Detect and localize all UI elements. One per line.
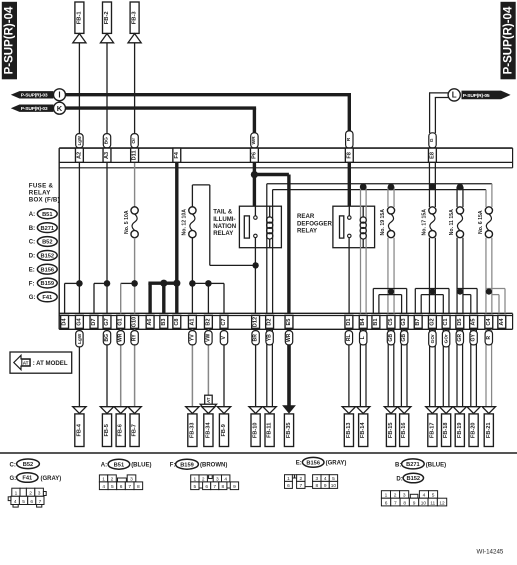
svg-text:4: 4 bbox=[102, 484, 105, 490]
svg-text:YB: YB bbox=[267, 334, 273, 341]
svg-text:8: 8 bbox=[403, 500, 406, 506]
wire color label WR for FB-6 bbox=[117, 331, 124, 345]
wire color label LgW on FB-1 wire bbox=[76, 134, 83, 148]
thick feed wire from flag K to F/B pin P6 bbox=[65, 106, 256, 109]
wire color label YB for FB-11 bbox=[266, 331, 273, 345]
connector FB-7 bbox=[130, 414, 139, 447]
hollow drop from bus to fuse No. 17 bbox=[428, 187, 430, 207]
connector FB-10 bbox=[251, 414, 260, 447]
wire color label GB for FB-16 bbox=[401, 331, 408, 345]
svg-text:FB-15: FB-15 bbox=[388, 423, 394, 439]
F/B bottom pin G10 bbox=[131, 315, 139, 328]
thick feed wire from flag I to F/B pin F8 bbox=[65, 93, 351, 96]
connector FB-2 bbox=[103, 2, 112, 33]
jumper junction to pin D7 bbox=[94, 282, 107, 284]
F/B bottom pin D2 bbox=[266, 315, 274, 328]
wire F/B to connector FB-20 (GY) bbox=[470, 329, 472, 407]
svg-text:(GRAY): (GRAY) bbox=[326, 461, 347, 467]
wire F/B to connector FB-17 (GOr) bbox=[429, 329, 431, 407]
svg-text:B159: B159 bbox=[40, 281, 54, 287]
arrow into connector FB-14 bbox=[357, 407, 370, 414]
svg-text:BOX (F/B): BOX (F/B) bbox=[29, 197, 60, 204]
svg-text:B4: B4 bbox=[360, 318, 366, 326]
svg-text:BG: BG bbox=[104, 137, 110, 145]
wire junction down to pin G10 bbox=[134, 283, 136, 313]
svg-text:1: 1 bbox=[194, 476, 197, 482]
connector FB-14 bbox=[359, 414, 368, 447]
hollow supply bus wire to fuses bbox=[267, 183, 492, 185]
svg-text:D7: D7 bbox=[91, 318, 97, 325]
svg-text:DEFOGGER: DEFOGGER bbox=[297, 220, 332, 227]
svg-text:P-SUP(R)-03: P-SUP(R)-03 bbox=[21, 106, 48, 112]
junction dot fuse No. 19 on supply bus bbox=[388, 184, 395, 191]
svg-text:B51: B51 bbox=[114, 462, 124, 468]
junction dot fuse No. 19 output split bbox=[388, 289, 394, 295]
wire F/B to connector FB-35 (WR) bbox=[287, 329, 291, 406]
svg-text:9: 9 bbox=[233, 484, 236, 490]
svg-text:C:: C: bbox=[29, 240, 35, 246]
wire color label GOr for FB-17 bbox=[429, 331, 436, 347]
svg-text:B159: B159 bbox=[180, 462, 194, 468]
svg-text:P-SUP(R)-03: P-SUP(R)-03 bbox=[21, 93, 48, 99]
svg-text:FB-21: FB-21 bbox=[486, 423, 492, 439]
svg-text:TAIL &: TAIL & bbox=[213, 209, 233, 216]
svg-text:RELAY: RELAY bbox=[297, 228, 317, 235]
fuse and relay box outline bbox=[59, 147, 512, 149]
svg-text:7: 7 bbox=[394, 500, 397, 506]
svg-text:YV: YV bbox=[189, 334, 195, 341]
svg-text:C:: C: bbox=[10, 462, 16, 468]
F/B bottom pin C7 bbox=[220, 315, 228, 328]
svg-text:B7: B7 bbox=[415, 318, 421, 325]
wire pin D11 down to fuse No. 5 bbox=[134, 162, 136, 206]
legend note: AT MODEL bbox=[10, 352, 72, 373]
svg-text:LgW: LgW bbox=[77, 333, 82, 344]
fuse No. 5 10A bbox=[131, 207, 138, 214]
svg-text:GY: GY bbox=[471, 333, 477, 341]
arrow into connector FB-10 bbox=[249, 407, 262, 414]
svg-text:D5: D5 bbox=[457, 318, 463, 325]
wire F/B to connector FB-18 (GOr) bbox=[442, 329, 444, 407]
wire F/B to connector FB-7 (RY) bbox=[134, 329, 136, 407]
junction dot fuse No. 6 output split bbox=[486, 289, 492, 295]
svg-text:G3: G3 bbox=[401, 318, 407, 325]
wire color label WR on feed K wire bbox=[251, 133, 258, 148]
connector FB-5 bbox=[102, 414, 111, 447]
connector FB-9 bbox=[219, 414, 228, 447]
F/B bottom pin D4 bbox=[61, 315, 69, 328]
wire F/B to connector FB-15 (GB) bbox=[387, 329, 389, 407]
junction dot fuse No. 17 output split bbox=[429, 289, 435, 295]
tail relay contact bar bbox=[244, 216, 249, 238]
wire color label WR for FB-35 bbox=[285, 331, 292, 345]
hollow drop from bus to fuse No. 19 bbox=[387, 187, 389, 207]
arrow into connector FB-16 bbox=[398, 407, 411, 414]
svg-text:BG: BG bbox=[104, 334, 110, 342]
wire color label R for FB-21 bbox=[485, 331, 492, 345]
junction dot on C8 column bbox=[173, 280, 180, 287]
hollow branch to pin A5 bbox=[457, 288, 477, 290]
svg-text:2: 2 bbox=[202, 476, 205, 482]
thick wire pin F8 down to defogger relay contact bbox=[348, 148, 351, 206]
wire color label RY for FB-7 bbox=[131, 331, 138, 345]
F/B bottom pin A4 bbox=[498, 315, 506, 328]
connector FB-34 bbox=[204, 414, 213, 447]
diagram page title block right: P-SUP(R)-04 bbox=[501, 2, 516, 80]
hollow wire fuse No. 17 output down to pin G2 bbox=[428, 238, 430, 314]
svg-text:5: 5 bbox=[111, 484, 114, 490]
arrow into connector FB-17 bbox=[426, 407, 439, 414]
svg-text:B271: B271 bbox=[40, 226, 54, 232]
svg-text:FB-14: FB-14 bbox=[360, 422, 366, 438]
wire junction down to pin B2 bbox=[207, 283, 209, 313]
svg-text:WR: WR bbox=[118, 333, 124, 342]
svg-text:4: 4 bbox=[224, 476, 227, 482]
svg-text:8: 8 bbox=[315, 483, 318, 489]
rear defogger relay box U2 bbox=[333, 206, 375, 248]
svg-text:K: K bbox=[57, 104, 63, 113]
wire color label R on feed I wire bbox=[346, 131, 353, 148]
svg-text:B:: B: bbox=[29, 226, 35, 232]
junction dot pin E8 / fuse No. 17 on supply bus bbox=[429, 183, 436, 190]
svg-text:FB-18: FB-18 bbox=[443, 423, 449, 439]
F/B bottom pin E5 bbox=[285, 315, 293, 328]
svg-text:5: 5 bbox=[22, 499, 25, 505]
diagram page title block left: P-SUP(R)-04 bbox=[2, 2, 17, 80]
junction dot on B2 column bbox=[205, 280, 212, 287]
svg-text:FB-16: FB-16 bbox=[401, 423, 407, 439]
junction dot defogger coil on supply bus bbox=[360, 183, 367, 190]
fuse No. 11 15A bbox=[456, 207, 463, 214]
thick branch wire to pin E5 bbox=[254, 173, 289, 176]
F/B bottom pin B4 bbox=[359, 315, 367, 328]
wire F/B to connector FB-5 (BG) bbox=[106, 329, 108, 407]
F/B bottom pin G4 bbox=[75, 315, 83, 328]
svg-text:FB-9: FB-9 bbox=[221, 424, 227, 436]
hollow wire fuse No. 11 output down to pin D5 bbox=[456, 238, 458, 314]
tail & illumination relay box U1 bbox=[239, 206, 281, 248]
connector FB-21 bbox=[484, 414, 493, 447]
svg-text:G7: G7 bbox=[104, 318, 110, 325]
svg-text:FB-7: FB-7 bbox=[132, 424, 138, 436]
svg-text:B52: B52 bbox=[42, 240, 52, 246]
wire loop feeding fuse No. 12 from tail relay output bbox=[191, 185, 193, 207]
wire F/B to connector FB-16 (GB) bbox=[400, 329, 402, 407]
svg-text:10: 10 bbox=[421, 500, 427, 506]
svg-text:8: 8 bbox=[137, 484, 140, 490]
wire from connector FB-2 to F/B pin A3 bbox=[106, 43, 108, 134]
svg-text:3: 3 bbox=[216, 476, 219, 482]
arrow into connector FB-15 bbox=[384, 407, 397, 414]
junction dot on G10 column bbox=[131, 280, 138, 287]
svg-text:2: 2 bbox=[394, 493, 397, 499]
defogger relay contact bar bbox=[340, 216, 344, 238]
F/B top pin F4 bbox=[173, 148, 181, 162]
svg-text:D1: D1 bbox=[346, 318, 352, 325]
svg-text:2: 2 bbox=[111, 476, 114, 482]
svg-text:B2: B2 bbox=[205, 318, 211, 325]
hollow wire fuse No. 6 output down to pin C4 bbox=[485, 238, 487, 314]
arrow into connector FB-13 bbox=[342, 407, 355, 414]
junction dot fuse No. 11 output split bbox=[457, 289, 463, 295]
connector FB-13 bbox=[344, 414, 353, 447]
wire from connector FB-1 to F/B pin A2 bbox=[78, 43, 80, 134]
junction dot on A1 column bbox=[189, 280, 196, 287]
tail relay coil bbox=[269, 206, 271, 217]
wire F/B to connector FB-19 (GR) bbox=[456, 329, 458, 407]
arrow into connector FB-7 bbox=[128, 407, 141, 414]
svg-text:R: R bbox=[346, 137, 352, 141]
svg-text:B52: B52 bbox=[23, 462, 33, 468]
svg-text:FB-11: FB-11 bbox=[267, 423, 273, 438]
svg-text:B152: B152 bbox=[40, 253, 54, 259]
connector FB-1 bbox=[75, 2, 84, 33]
F/B bottom pin C8 bbox=[173, 315, 181, 328]
svg-text:B156: B156 bbox=[306, 460, 320, 466]
F/B bottom pin G7 bbox=[103, 315, 111, 328]
wire color label BG for FB-5 bbox=[103, 331, 110, 345]
horizontal separator rule bbox=[0, 452, 517, 454]
svg-text:4: 4 bbox=[423, 493, 426, 499]
svg-text:FB-34: FB-34 bbox=[205, 422, 211, 438]
wire color label Or on FB-3 wire bbox=[131, 134, 138, 148]
svg-text:FB-33: FB-33 bbox=[189, 423, 195, 439]
junction dot on G7 column bbox=[104, 280, 111, 287]
svg-text:P6: P6 bbox=[251, 152, 257, 159]
arrow into connector FB-34 bbox=[202, 407, 215, 414]
wire F/B to connector FB-6 (WR) bbox=[120, 329, 122, 407]
jumper from B2 junction to pin C7 bbox=[208, 282, 224, 284]
F/B top pin D11 bbox=[131, 148, 139, 162]
wire F/B to connector FB-33 (YV) bbox=[191, 329, 193, 407]
F/B bottom pin C4 bbox=[485, 315, 493, 328]
F/B bottom pin C1 bbox=[442, 315, 450, 328]
svg-text:FB-13: FB-13 bbox=[346, 423, 352, 439]
svg-text:AT: AT bbox=[23, 360, 29, 365]
power feed flag K from P-SUP(R)-03 bbox=[11, 105, 54, 112]
hollow branch bar to pins B1 and G3 bbox=[373, 288, 406, 290]
svg-text:B:: B: bbox=[395, 462, 401, 468]
arrow into connector FB-18 bbox=[439, 407, 452, 414]
wire from connector FB-3 to F/B pin D11 bbox=[134, 43, 136, 134]
arrow into connector FB-5 bbox=[100, 407, 113, 414]
connector FB-19 bbox=[455, 414, 464, 447]
svg-text:9: 9 bbox=[324, 483, 327, 489]
svg-text:C5: C5 bbox=[388, 318, 394, 325]
F/B bottom pin D5 bbox=[456, 315, 464, 328]
F/B bottom pin B2 bbox=[204, 315, 212, 328]
svg-text:A3: A3 bbox=[104, 152, 110, 159]
svg-text:Or: Or bbox=[131, 138, 137, 144]
wire fuse No. 5 output down to G10 junction bbox=[134, 238, 136, 284]
svg-text:No. 6 15A: No. 6 15A bbox=[478, 210, 484, 234]
svg-text:RY: RY bbox=[132, 334, 138, 341]
F/B bottom pin B7 bbox=[414, 315, 422, 328]
jumper junction to pin D4 bbox=[65, 282, 80, 284]
wire color label BR for FB-10 bbox=[252, 331, 259, 345]
F/B bottom pin C5 bbox=[387, 315, 395, 328]
svg-text:7: 7 bbox=[299, 483, 302, 489]
svg-text:B1: B1 bbox=[373, 318, 379, 325]
connector FB-4 bbox=[75, 414, 84, 447]
svg-text:WR: WR bbox=[286, 333, 292, 342]
svg-text:G:: G: bbox=[29, 295, 36, 301]
svg-text:A:: A: bbox=[29, 212, 35, 218]
connector face view C/G bbox=[12, 488, 20, 496]
svg-text:FB-6: FB-6 bbox=[118, 424, 124, 436]
svg-text:10: 10 bbox=[331, 483, 337, 489]
connector face view A bbox=[99, 475, 107, 482]
arrow into connector FB-11 bbox=[263, 407, 276, 414]
svg-text:C8: C8 bbox=[174, 318, 180, 325]
thick branch bar to pins B3 and A6 bbox=[148, 282, 176, 285]
connector FB-17 bbox=[428, 414, 437, 447]
svg-text:A1: A1 bbox=[189, 318, 195, 325]
wire color label GB for FB-15 bbox=[387, 331, 394, 345]
hollow drop from bus to fuse No. 11 bbox=[456, 187, 458, 207]
svg-text:FB-1: FB-1 bbox=[76, 11, 82, 25]
svg-text:LgW: LgW bbox=[77, 135, 82, 145]
hollow branch bar to pins B7 and C1 bbox=[415, 288, 449, 290]
svg-text:FB-4: FB-4 bbox=[76, 423, 82, 436]
connector FB-15 bbox=[386, 414, 395, 447]
svg-text:5: 5 bbox=[432, 493, 435, 499]
svg-text:A2: A2 bbox=[76, 152, 82, 159]
svg-text:: AT MODEL: : AT MODEL bbox=[33, 360, 68, 367]
hollow branch to pin A4 bbox=[486, 288, 505, 290]
svg-text:GB: GB bbox=[401, 334, 407, 342]
svg-text:5: 5 bbox=[194, 484, 197, 490]
fuse No. 6 15A bbox=[485, 207, 492, 214]
fuse No. 17 15A bbox=[429, 207, 436, 214]
jumper from A1 junction to B2 junction bbox=[192, 282, 208, 284]
wire color label YV for FB-33 bbox=[189, 331, 196, 345]
svg-text:I: I bbox=[58, 91, 60, 100]
hollow wire drop through tail relay coil to pin D2 bbox=[266, 184, 268, 314]
F/B bottom pin A1 bbox=[188, 315, 196, 328]
hollow drop from bus right end to fuse No. 6 bbox=[491, 184, 493, 207]
wire F/B to connector FB-34 (VW) bbox=[207, 329, 209, 407]
defogger relay coil bbox=[362, 206, 364, 217]
svg-text:F41: F41 bbox=[22, 476, 32, 482]
wire color label BG on FB-2 wire bbox=[103, 134, 110, 148]
svg-text:7: 7 bbox=[213, 484, 216, 490]
svg-text:G: G bbox=[429, 138, 435, 142]
thick wire pin P6 down to junction dot bbox=[253, 162, 256, 206]
svg-text:No. 5 10A: No. 5 10A bbox=[124, 210, 130, 234]
svg-text:11: 11 bbox=[430, 500, 435, 506]
svg-text:E5: E5 bbox=[286, 319, 292, 326]
wire color label L for FB-14 bbox=[360, 331, 367, 345]
junction dot on tail relay output at D12 column bbox=[252, 262, 258, 268]
F/B bottom pin A6 bbox=[146, 315, 154, 328]
svg-text:R: R bbox=[486, 336, 492, 340]
svg-text:P-SUP(R)-04: P-SUP(R)-04 bbox=[4, 6, 16, 74]
wire fuse No. 12 output down to pin A1 bbox=[191, 238, 193, 314]
svg-text:3: 3 bbox=[130, 476, 133, 482]
connector FB-33 bbox=[188, 414, 197, 447]
connector FB-35 bbox=[284, 414, 293, 447]
wire color label GOr for FB-18 bbox=[442, 331, 449, 347]
arrow into connector FB-6 bbox=[114, 407, 127, 414]
power feed flag I from P-SUP(R)-03 bbox=[11, 91, 54, 98]
connector FB-18 bbox=[442, 414, 451, 447]
svg-text:9: 9 bbox=[413, 500, 416, 506]
svg-text:(BLUE): (BLUE) bbox=[131, 463, 151, 469]
svg-text:A:: A: bbox=[101, 463, 107, 469]
svg-text:B152: B152 bbox=[406, 476, 420, 482]
svg-text:FB-2: FB-2 bbox=[104, 11, 110, 24]
svg-text:FB-10: FB-10 bbox=[253, 423, 259, 439]
svg-text:G4: G4 bbox=[76, 317, 82, 325]
hollow wire pin E8 down to supply bus bbox=[428, 162, 430, 186]
connector FB-11 bbox=[265, 414, 274, 447]
svg-text:G1: G1 bbox=[118, 318, 124, 325]
wire F/B to connector FB-13 (RL) bbox=[348, 329, 350, 407]
connector face view E bbox=[285, 475, 293, 482]
svg-text:A4: A4 bbox=[499, 318, 505, 326]
svg-text:F4: F4 bbox=[174, 151, 180, 158]
svg-text:F8: F8 bbox=[346, 152, 352, 159]
svg-text:1: 1 bbox=[385, 493, 388, 499]
wire color label V for FB-9 bbox=[220, 331, 227, 345]
svg-text:P-SUP(R)-04: P-SUP(R)-04 bbox=[502, 6, 514, 74]
svg-text:(BROWN): (BROWN) bbox=[200, 463, 227, 469]
svg-text:12: 12 bbox=[439, 500, 445, 506]
hollow wire from flag L down to F/B pin E8 bbox=[429, 92, 448, 94]
svg-text:6: 6 bbox=[30, 499, 33, 505]
F/B top pin E8 bbox=[428, 148, 436, 162]
connector face view F bbox=[191, 475, 199, 482]
svg-text:GB: GB bbox=[388, 334, 394, 342]
arrow into connector FB-19 bbox=[453, 407, 466, 414]
svg-text:L: L bbox=[360, 336, 366, 339]
svg-text:ILLUMI-: ILLUMI- bbox=[213, 216, 235, 223]
F/B bottom pin G2 bbox=[428, 315, 436, 328]
svg-text:D12: D12 bbox=[253, 317, 259, 327]
svg-text:FB-20: FB-20 bbox=[471, 423, 477, 439]
F/B bottom pin D7 bbox=[90, 315, 98, 328]
wire color label GY for FB-20 bbox=[470, 331, 477, 345]
fuse No. 12 10A bbox=[189, 207, 196, 214]
svg-text:NATION: NATION bbox=[213, 223, 236, 230]
svg-text:C7: C7 bbox=[221, 318, 227, 325]
svg-text:G10: G10 bbox=[132, 317, 138, 328]
arrow into connector FB-9 bbox=[217, 407, 230, 414]
svg-text:D:: D: bbox=[29, 254, 35, 260]
junction dot on P6 feed bbox=[251, 171, 258, 178]
fuse No. 19 15A bbox=[387, 207, 394, 214]
svg-text:D2: D2 bbox=[267, 318, 273, 325]
svg-text:6: 6 bbox=[385, 500, 388, 506]
wire F/B to connector FB-10 (BR) bbox=[255, 329, 257, 407]
svg-text:BR: BR bbox=[253, 334, 259, 342]
svg-text:L: L bbox=[452, 91, 457, 100]
arrow into connector FB-4 bbox=[73, 407, 86, 414]
svg-text:No. 17 15A: No. 17 15A bbox=[422, 209, 428, 236]
wire color label GR for FB-19 bbox=[456, 331, 463, 345]
svg-text:A5: A5 bbox=[471, 318, 477, 325]
svg-text:FB-17: FB-17 bbox=[429, 423, 435, 439]
wire F/B to connector FB-9 (V) bbox=[223, 329, 225, 407]
F/B bottom pin B3 bbox=[160, 315, 168, 328]
arrow into connector FB-20 bbox=[467, 407, 480, 414]
svg-text:No. 11 15A: No. 11 15A bbox=[449, 209, 455, 235]
svg-text:FUSE &: FUSE & bbox=[29, 182, 54, 189]
thick wire pin F4 down to pin C8 bbox=[175, 162, 178, 313]
svg-text:GOr: GOr bbox=[444, 334, 449, 343]
F/B bottom pin D1 bbox=[345, 315, 353, 328]
